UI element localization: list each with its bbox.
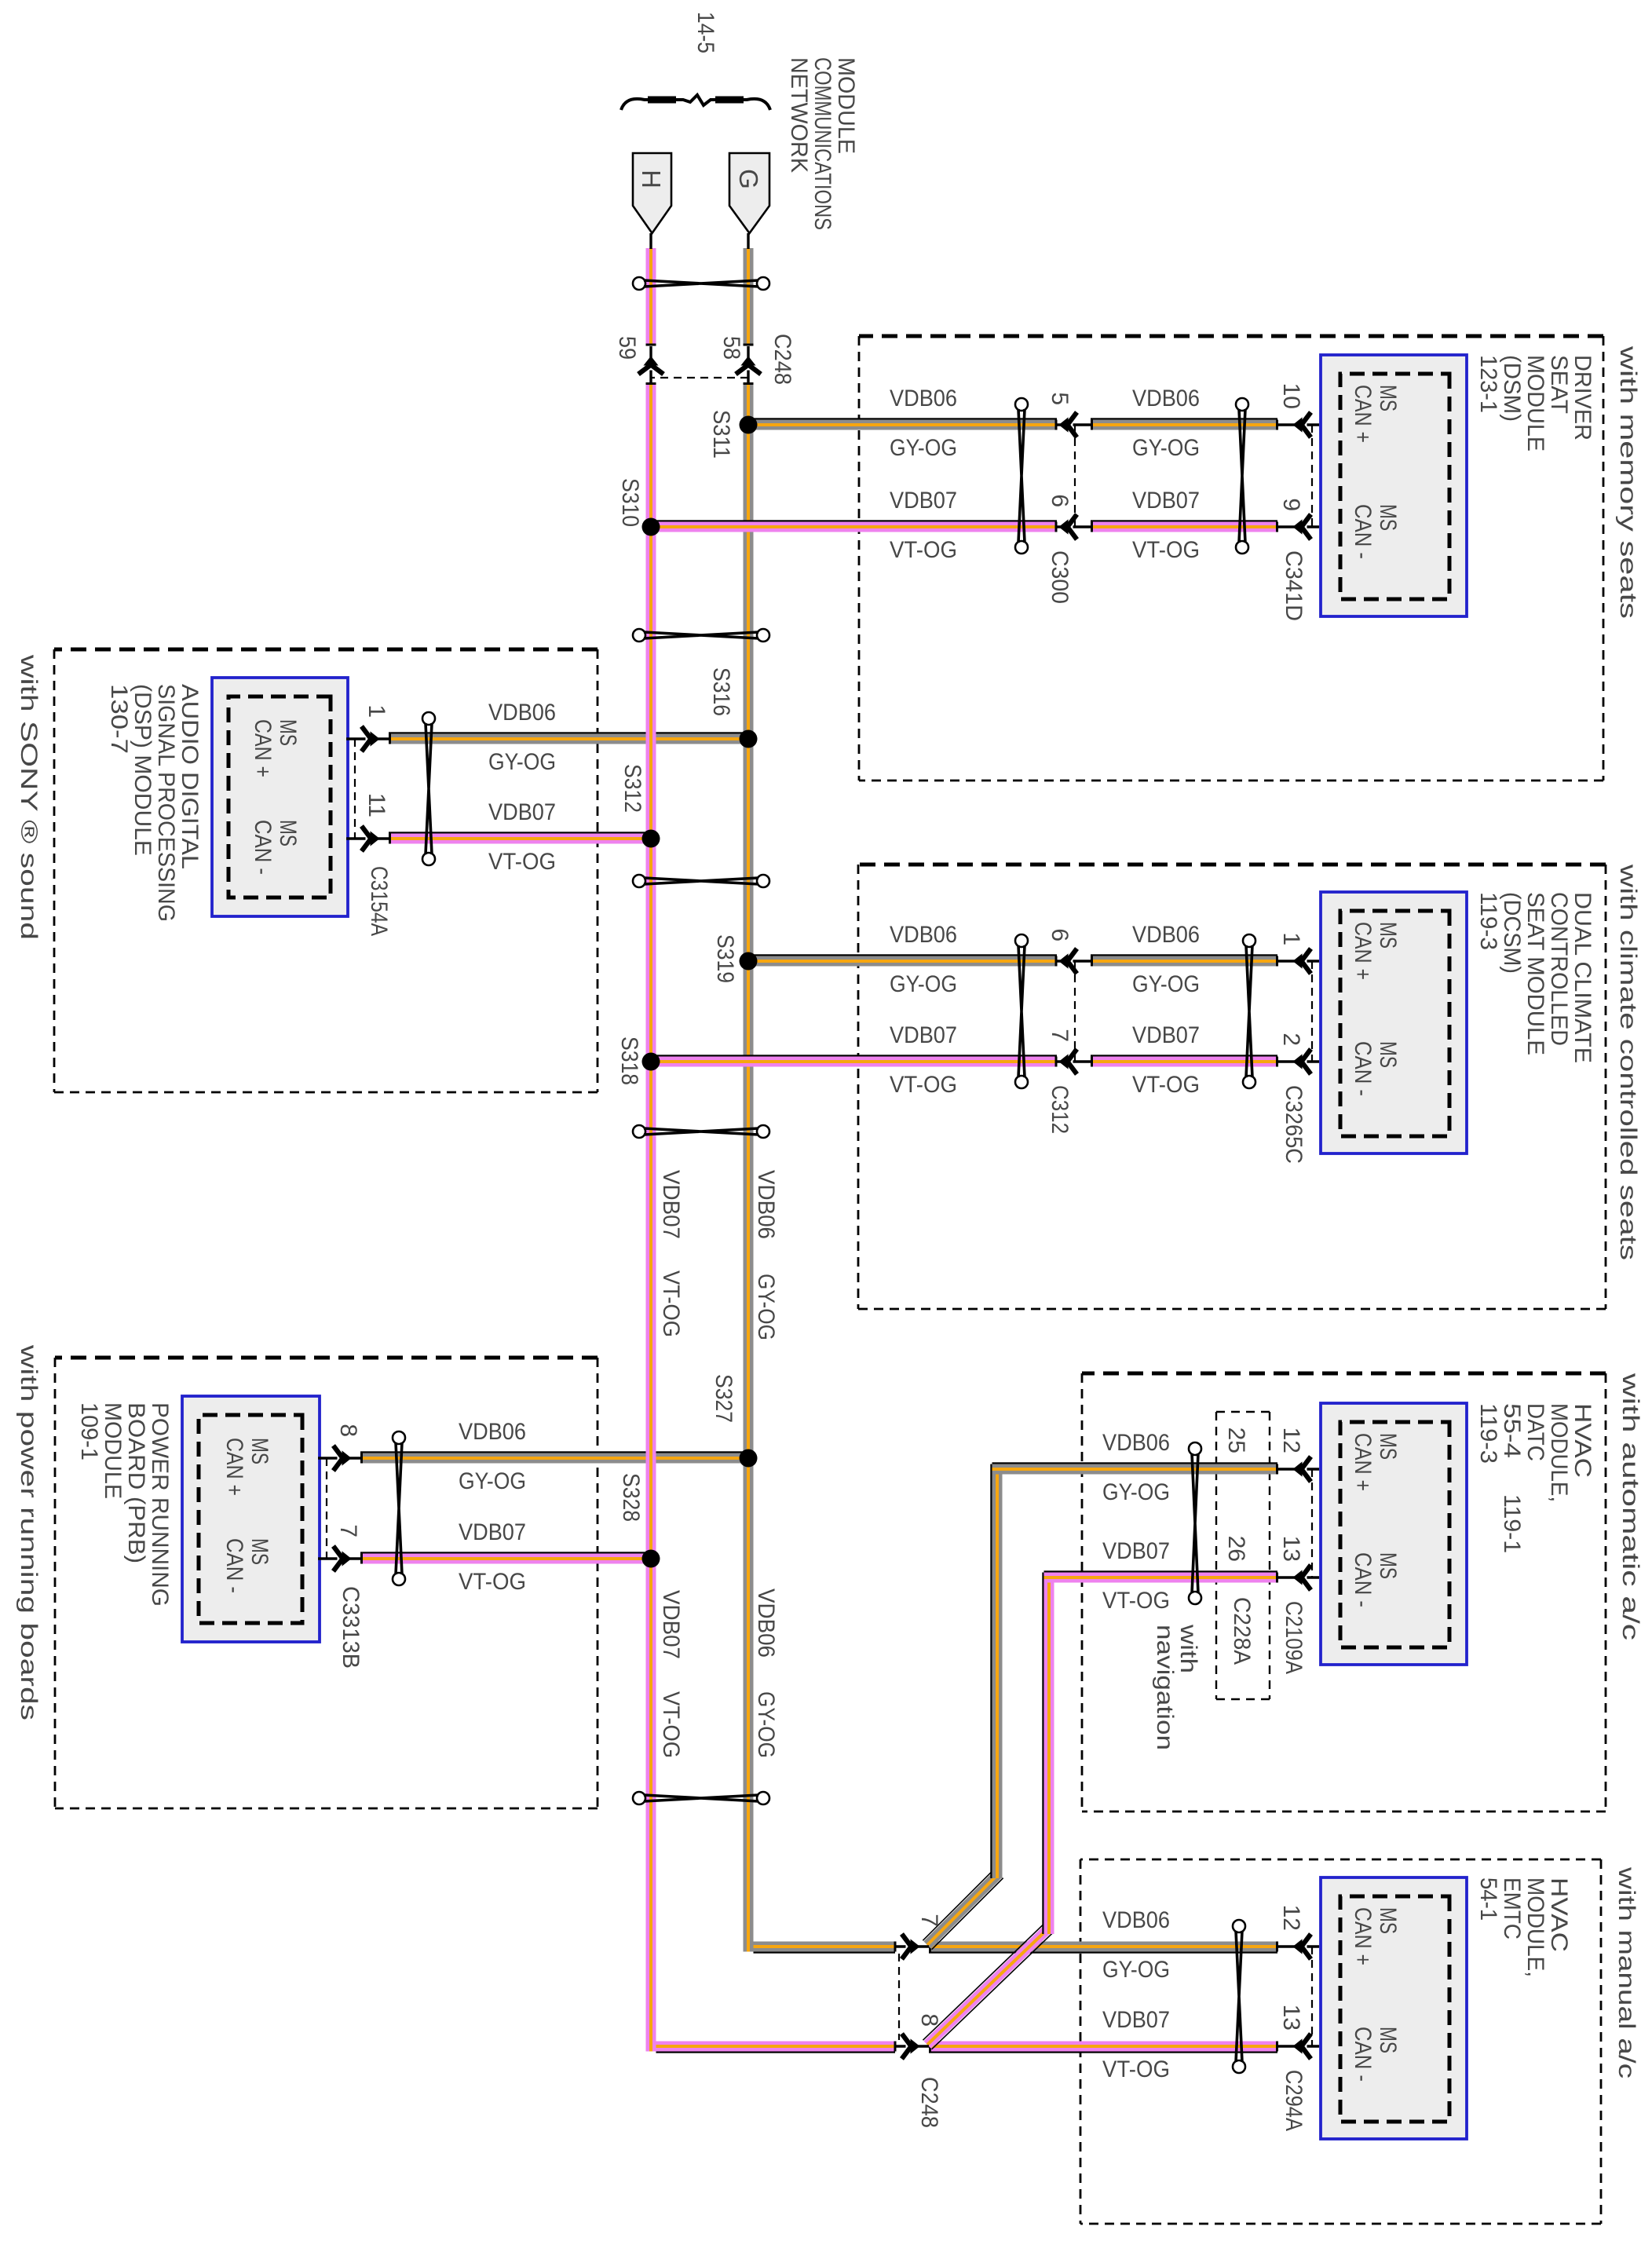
module box AUDIO DIGITAL [212,678,348,916]
module connector C294A pin 12 lead and arrow [1277,1945,1319,1947]
connector C312 pin 7 lead and arrow [1057,1060,1091,1062]
module connector C3265C pin 2 lead and arrow [1277,1060,1319,1062]
module connector C3154A pin 11 lead and arrow [346,837,389,839]
svg-text:HVAC: HVAC [1570,1403,1595,1478]
lead from flag G to bus [747,233,749,249]
svg-text:GY-OG: GY-OG [488,749,556,775]
connector C300 pin 6 lead and arrow [1057,525,1091,528]
svg-text:9: 9 [1278,498,1304,511]
svg-text:GY-OG: GY-OG [890,971,957,997]
svg-text:MS: MS [275,719,301,746]
svg-text:with climate controlled seats: with climate controlled seats [1615,864,1641,1260]
svg-text:5: 5 [1047,392,1073,405]
svg-text:C2109A: C2109A [1281,1601,1307,1674]
svg-text:CAN -: CAN - [1350,2027,1376,2082]
wire VDB06 branch to DSM S311 [748,420,1057,430]
module connector C2109A pin 13 lead and arrow [1277,1576,1319,1578]
wire VDB07 branch from PRB to S328 [360,1554,651,1564]
svg-text:VDB07: VDB07 [658,1590,684,1659]
svg-text:MODULE,: MODULE, [1546,1403,1572,1502]
svg-text:CAN -: CAN - [221,1538,247,1593]
svg-text:MS: MS [1375,1041,1401,1068]
svg-text:VDB06: VDB06 [1102,1430,1170,1456]
junction S328 [642,1550,660,1568]
svg-text:MS: MS [1375,385,1401,411]
svg-text:BOARD (PRB): BOARD (PRB) [123,1402,149,1563]
svg-text:GY-OG: GY-OG [890,435,957,461]
svg-text:MS: MS [1375,504,1401,531]
twisted pair symbol [1015,398,1028,554]
twisted pair symbol [1015,934,1028,1088]
svg-text:H: H [637,170,666,188]
connector C248 pin 59 lead and arrow [649,346,652,382]
junction S316 [740,730,758,748]
module connector C3313B pin 7 lead and arrow [318,1557,360,1559]
svg-text:S318: S318 [616,1036,642,1085]
svg-text:VDB07: VDB07 [1132,488,1200,514]
module connector C3313B pin 8 lead and arrow [318,1457,360,1459]
lead from flag H to bus [649,233,652,249]
svg-text:C3265C: C3265C [1281,1085,1307,1164]
connector C3313B dashed line [326,1458,327,1559]
svg-text:VDB06: VDB06 [459,1419,526,1445]
svg-text:VT-OG: VT-OG [1102,2056,1170,2082]
svg-text:VDB06: VDB06 [753,1170,779,1239]
junction S311 [740,416,758,434]
wire VDB06 branch from PRB to S327 [360,1453,748,1464]
connector C294A dashed line [1311,1947,1313,2046]
svg-text:7: 7 [1047,1029,1073,1042]
svg-text:C248: C248 [916,2077,942,2128]
svg-text:VDB07: VDB07 [488,799,556,825]
module connector C341D pin 9 lead and arrow [1277,525,1319,528]
twisted pair symbol on bus [633,875,769,887]
section dashed box with climate controlled seats [1605,865,1607,1309]
twisted pair symbol [1243,934,1255,1088]
svg-text:14-5: 14-5 [693,12,718,53]
svg-text:VT-OG: VT-OG [890,1072,957,1098]
svg-text:MODULE: MODULE [833,57,859,154]
wire VDB06 horizontal run to HVAC DATC [992,1464,1003,1879]
svg-text:C3313B: C3313B [338,1586,364,1669]
twisted pair symbol [422,712,435,865]
module connector C341D pin 10 lead and arrow [1277,423,1319,426]
svg-text:8: 8 [335,1424,361,1437]
module connector C3265C pin 1 lead and arrow [1277,960,1319,962]
svg-text:123-1: 123-1 [1475,355,1501,413]
connector C248 lower dashed line [898,1954,900,2040]
svg-text:S316: S316 [708,667,734,716]
svg-text:CAN -: CAN - [1350,504,1376,559]
svg-text:MS: MS [1375,1552,1401,1579]
svg-text:VT-OG: VT-OG [1132,1072,1200,1098]
svg-text:119-3: 119-3 [1475,1403,1501,1464]
junction S310 [642,518,660,536]
wire VDB06 vertical into HVAC DATC pin 12 [992,1464,1278,1475]
wire VDB06 diagonal branch to HVAC DATC [932,1878,1003,1950]
svg-text:MS: MS [275,820,301,846]
svg-text:S310: S310 [617,478,643,527]
svg-text:SEAT MODULE: SEAT MODULE [1522,892,1548,1055]
connector C228A dashed box [1269,1412,1270,1699]
svg-text:with manual a/c: with manual a/c [1614,1866,1639,2078]
svg-text:MS: MS [1375,1433,1401,1460]
wire VDB07 VT-OG main bus horizontal [646,248,656,345]
svg-text:8: 8 [916,2013,942,2027]
svg-text:VT-OG: VT-OG [658,1270,684,1337]
svg-text:GY-OG: GY-OG [753,1274,779,1340]
svg-text:CAN +: CAN + [1350,1433,1376,1491]
svg-text:VDB07: VDB07 [1102,2007,1170,2033]
bundle brace to page 14-5 [621,95,770,110]
connector C312 dashed line [1074,961,1076,1062]
svg-text:10: 10 [1278,383,1304,409]
svg-text:6: 6 [1047,928,1073,941]
junction S319 [740,952,758,971]
connector C248 pin 58 lead and arrow [747,346,749,382]
svg-text:VDB06: VDB06 [488,700,556,726]
wire VDB07 horizontal run to HVAC DATC [1044,1573,1054,1935]
svg-text:55-4: 55-4 [1499,1403,1525,1458]
svg-text:C294A: C294A [1281,2070,1307,2131]
section dashed box with memory seats [1603,336,1605,781]
wire VDB06 bus corner vertical to C248 pin 7 [754,1942,896,1952]
svg-text:7: 7 [335,1524,361,1537]
svg-text:MS: MS [247,1438,272,1464]
connector C248 pin 8 lead and arrow [895,2045,929,2047]
svg-text:54-1: 54-1 [1475,1877,1501,1921]
svg-text:11: 11 [364,793,389,817]
svg-text:VDB07: VDB07 [658,1170,684,1239]
module box ('DUAL CLIMATE', 218) ('CONTROLLED', 196) [1321,892,1467,1153]
svg-text:MS: MS [247,1538,272,1565]
module box ('DRIVER', 109) ('SEAT', 75) [1321,355,1467,616]
svg-text:GY-OG: GY-OG [459,1468,526,1494]
svg-text:S327: S327 [711,1374,736,1423]
wire VDB07 branch to DCSM S318 [651,1057,1057,1067]
svg-text:CAN +: CAN + [221,1438,247,1496]
wire VDB06 branch from DSP to S316 [389,734,748,744]
svg-text:CAN +: CAN + [250,719,276,777]
svg-text:NETWORK: NETWORK [786,57,812,173]
connector C341D dashed line [1311,425,1313,527]
module box ('HVAC', 95) ('MODULE,', 126) [1321,1403,1467,1665]
section dashed box with automatic a/c [1605,1373,1607,1811]
module connector C3154A pin 1 lead and arrow [346,737,389,740]
wire VDB06 vertical C248 pin 7 to HVAC EMTC pin 12 [929,1942,1277,1952]
wire VDB07 vertical into HVAC DATC pin 13 [1044,1573,1278,1583]
svg-text:with memory seats: with memory seats [1615,345,1641,619]
svg-text:G: G [734,169,763,189]
svg-text:C341D: C341D [1281,550,1307,621]
svg-text:VDB07: VDB07 [890,1022,957,1048]
svg-text:VDB07: VDB07 [1132,1022,1200,1048]
svg-text:12: 12 [1278,1428,1304,1453]
svg-text:COMMUNICATIONS: COMMUNICATIONS [810,57,835,230]
svg-text:SIGNAL PROCESSING: SIGNAL PROCESSING [153,684,179,922]
svg-text:DUAL CLIMATE: DUAL CLIMATE [1570,892,1595,1063]
svg-text:C228A: C228A [1229,1597,1255,1665]
twisted pair symbol [1233,1920,1245,2073]
twisted pair symbol [1236,398,1248,554]
svg-text:HVAC: HVAC [1546,1877,1572,1952]
svg-text:MS: MS [1375,1907,1401,1934]
svg-text:DRIVER: DRIVER [1570,355,1595,441]
svg-text:26: 26 [1223,1536,1249,1562]
svg-text:VDB07: VDB07 [1102,1538,1170,1564]
svg-text:CAN +: CAN + [1350,922,1376,980]
svg-text:VDB07: VDB07 [890,488,957,514]
svg-text:DATC: DATC [1522,1403,1548,1461]
section dashed box with SONY sound [597,649,599,1092]
svg-text:1: 1 [364,704,389,718]
svg-text:CAN +: CAN + [1350,1907,1376,1965]
svg-text:MS: MS [1375,2027,1401,2053]
wire VDB07 bus corner vertical to C248 pin 8 [656,2042,896,2052]
svg-text:VDB07: VDB07 [459,1519,526,1545]
svg-text:GY-OG: GY-OG [1132,971,1200,997]
svg-text:with: with [1175,1624,1201,1673]
svg-text:VT-OG: VT-OG [1102,1588,1170,1614]
svg-text:CAN -: CAN - [1350,1041,1376,1096]
module box ('HVAC', 95) ('MODULE,', 127) [1321,1877,1467,2139]
svg-text:with SONY ® sound: with SONY ® sound [16,654,42,940]
connector C312 pin 6 lead and arrow [1057,960,1091,962]
svg-text:MS: MS [1375,922,1401,949]
svg-text:(DSP) MODULE: (DSP) MODULE [130,684,155,856]
svg-text:119-1: 119-1 [1499,1494,1525,1553]
svg-text:7: 7 [916,1914,942,1927]
svg-text:CAN -: CAN - [250,820,276,875]
svg-text:MODULE: MODULE [1522,355,1548,451]
junction S312 [642,830,660,848]
wire VDB06 GY-OG main bus horizontal [744,248,754,345]
section dashed box with power running boards [597,1358,599,1808]
twisted pair symbol on bus [633,277,769,290]
svg-text:CAN -: CAN - [1350,1552,1376,1607]
svg-text:C3154A: C3154A [366,866,392,936]
svg-text:VDB06: VDB06 [753,1588,779,1658]
svg-text:VT-OG: VT-OG [890,537,957,563]
svg-text:119-3: 119-3 [1475,892,1501,950]
svg-text:12: 12 [1278,1905,1304,1931]
svg-text:S312: S312 [619,764,645,813]
wire VDB07 vertical C248 pin 8 to HVAC EMTC pin 13 [929,2042,1277,2052]
connector C248 dashed line [651,377,748,378]
off-page flag H [633,153,671,233]
connector C300 dashed line [1074,425,1076,527]
svg-text:CONTROLLED: CONTROLLED [1546,892,1572,1046]
svg-text:VDB06: VDB06 [890,386,957,411]
svg-text:109-1: 109-1 [76,1402,102,1461]
svg-text:C248: C248 [769,334,795,385]
twisted pair symbol [1189,1442,1201,1604]
off-page flag G [729,153,769,233]
svg-text:MODULE,: MODULE, [1522,1877,1548,1977]
svg-text:25: 25 [1223,1428,1249,1453]
svg-text:59: 59 [614,336,640,360]
wire VDB06 branch to DCSM S319 [748,956,1057,967]
svg-text:S319: S319 [712,934,738,983]
svg-text:with automatic a/c: with automatic a/c [1617,1373,1643,1640]
svg-text:13: 13 [1278,2005,1304,2031]
svg-text:EMTC: EMTC [1499,1877,1525,1939]
svg-text:58: 58 [718,336,744,360]
svg-text:S311: S311 [708,410,734,459]
svg-text:VDB06: VDB06 [1132,922,1200,948]
svg-text:GY-OG: GY-OG [753,1691,779,1758]
twisted pair symbol [393,1431,405,1585]
svg-text:GY-OG: GY-OG [1132,435,1200,461]
twisted pair symbol on bus [633,1792,769,1804]
svg-text:with power running boards: with power running boards [16,1344,42,1720]
svg-text:VDB06: VDB06 [1102,1907,1170,1933]
svg-text:VDB06: VDB06 [1132,386,1200,411]
connector C3265C dashed line [1311,961,1313,1062]
svg-text:C300: C300 [1047,550,1073,604]
wire VDB07 branch from DSP to S312 [389,834,651,844]
connector C2109A dashed line [1311,1469,1313,1577]
svg-text:MODULE: MODULE [100,1402,126,1499]
svg-text:130-7: 130-7 [106,684,132,754]
svg-text:POWER RUNNING: POWER RUNNING [147,1402,173,1607]
wire VDB07 branch to DSM S310 [651,522,1057,532]
svg-text:VT-OG: VT-OG [658,1691,684,1758]
module connector C2109A pin 12 lead and arrow [1277,1468,1319,1470]
svg-text:VT-OG: VT-OG [459,1569,526,1595]
svg-text:GY-OG: GY-OG [1102,1957,1170,1983]
module connector C294A pin 13 lead and arrow [1277,2045,1319,2047]
svg-text:C312: C312 [1047,1085,1073,1134]
wire VDB07 diagonal branch to HVAC DATC [932,1932,1054,2049]
svg-text:6: 6 [1047,494,1073,507]
section dashed box with manual a/c [1600,1859,1603,2224]
twisted pair symbol on bus [633,629,769,642]
svg-text:VDB06: VDB06 [890,922,957,948]
module box POWER RUNNING [182,1396,320,1642]
svg-text:13: 13 [1278,1536,1304,1562]
svg-text:VT-OG: VT-OG [488,849,556,875]
svg-text:AUDIO DIGITAL: AUDIO DIGITAL [177,684,203,869]
connector C3154A dashed line [354,739,356,839]
connector C248 pin 7 lead and arrow [895,1945,929,1947]
svg-text:2: 2 [1278,1033,1304,1046]
svg-text:VT-OG: VT-OG [1132,537,1200,563]
svg-text:SEAT: SEAT [1546,355,1572,414]
svg-text:(DCSM): (DCSM) [1499,892,1525,974]
junction S318 [642,1053,660,1071]
junction S327 [740,1450,758,1468]
svg-text:S328: S328 [618,1473,644,1522]
svg-text:CAN +: CAN + [1350,385,1376,443]
svg-text:navigation: navigation [1152,1625,1178,1750]
connector C300 pin 5 lead and arrow [1057,423,1091,426]
svg-text:GY-OG: GY-OG [1102,1479,1170,1505]
svg-text:(DSM): (DSM) [1499,355,1525,422]
twisted pair symbol on bus [633,1125,769,1138]
svg-text:1: 1 [1278,932,1304,945]
